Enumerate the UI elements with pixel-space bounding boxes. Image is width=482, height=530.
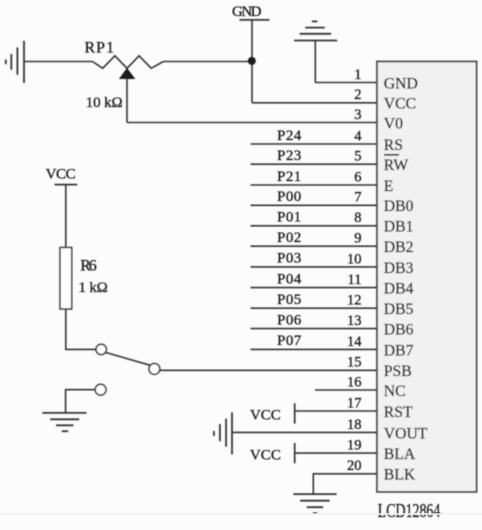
wire: RP1 right terminal to GND node [163,61,252,63]
svg-text:P01: P01 [277,210,301,226]
svg-text:18: 18 [347,417,362,433]
svg-text:DB2: DB2 [384,239,414,256]
svg-text:10 kΩ: 10 kΩ [86,95,123,111]
wire: pin 20 BLK to ground [313,474,377,494]
scan streak artifact [0,513,482,515]
svg-text:6: 6 [354,169,361,185]
svg-text:P04: P04 [277,271,302,287]
svg-text:P21: P21 [277,169,301,185]
wire: RP1 wiper down [126,79,128,123]
wire: ground stem down [314,41,316,83]
switch contact (lower) [95,384,106,395]
svg-text:P02: P02 [277,230,301,246]
svg-text:VCC: VCC [46,167,76,183]
svg-text:DB3: DB3 [384,260,414,277]
svg-text:BLK: BLK [384,467,416,484]
svg-text:13: 13 [347,313,362,329]
svg-text:12: 12 [347,293,362,309]
svg-text:LCD12864: LCD12864 [378,501,441,522]
svg-text:PSB: PSB [384,363,412,380]
svg-text:P03: P03 [277,251,301,267]
wire: ground to RP1 left terminal [24,61,93,63]
IC U1 LCD12864 module body [377,62,477,492]
IC pin name labels [384,75,428,483]
svg-text:P23: P23 [277,148,301,164]
wire: R6 to switch pole [66,309,96,349]
ground symbol (left of pin 18 VOUT) [214,412,232,454]
svg-text:4: 4 [354,128,362,144]
wire: lower contact to ground [66,390,96,412]
svg-text:GND: GND [232,4,262,20]
svg-text:16: 16 [347,374,362,390]
wire: VCC to R6 [65,185,67,248]
svg-text:P06: P06 [277,312,302,328]
ground symbol (top-left, rotated left) [6,41,24,83]
svg-text:V0: V0 [384,115,403,132]
svg-text:8: 8 [354,210,361,226]
wires: port bus P24..P07 to pins 4-14 [251,144,378,349]
ground symbol (top-right, inverted, for pin 1) [294,21,337,40]
wire: GND rail vertical [251,20,253,103]
svg-text:DB6: DB6 [384,322,414,339]
wire: ground to pin 18 VOUT [232,431,377,433]
svg-text:20: 20 [347,458,362,474]
svg-text:15: 15 [347,355,362,371]
svg-text:GND: GND [384,75,418,92]
svg-text:9: 9 [354,231,361,247]
svg-text:19: 19 [347,438,362,454]
svg-text:10: 10 [347,251,362,267]
svg-text:7: 7 [354,190,361,206]
svg-text:RP1: RP1 [85,40,115,57]
net label VCC (left) [46,167,78,185]
svg-text:P00: P00 [277,189,301,205]
svg-text:RW: RW [384,157,409,174]
svg-text:1: 1 [354,67,361,83]
svg-text:11: 11 [348,272,362,288]
svg-text:DB7: DB7 [384,342,414,359]
switch contact (upper) [96,344,106,354]
svg-text:5: 5 [354,149,361,165]
svg-text:R6: R6 [80,258,97,275]
switch common contact [149,364,160,375]
VCC tap for pin 19 BLA [250,443,377,464]
wire: to pin 1 GND [315,82,377,84]
net labels P24..P07 [277,128,302,349]
svg-text:P07: P07 [277,333,302,349]
overline on RW (pin 5) [384,154,399,156]
svg-text:VCC: VCC [250,408,281,424]
svg-text:3: 3 [354,107,361,123]
svg-text:BLA: BLA [384,446,416,463]
svg-text:1 kΩ: 1 kΩ [79,280,108,296]
svg-text:RST: RST [384,404,413,421]
ground symbol (below switch) [42,413,86,431]
svg-text:14: 14 [347,334,362,350]
svg-text:P24: P24 [277,128,302,144]
RP1 wiper arrow [119,68,135,79]
svg-text:VCC: VCC [250,448,281,464]
svg-text:DB0: DB0 [384,198,414,215]
switch lever [106,352,151,365]
svg-text:2: 2 [354,87,361,103]
svg-text:DB5: DB5 [384,301,414,318]
potentiometer RP1 body (zigzag) [93,56,164,69]
svg-text:P05: P05 [277,292,301,308]
resistor R6 [60,248,72,310]
ground symbol (bottom, for pin 20) [293,494,336,513]
svg-text:RS: RS [384,137,403,154]
svg-text:VOUT: VOUT [384,425,428,442]
junction dot [248,57,256,65]
svg-text:DB1: DB1 [384,219,414,236]
svg-text:NC: NC [384,383,406,400]
svg-text:E: E [384,178,394,195]
wire: switch common to pin 15 PSB [160,369,377,371]
wire: to pin 2 VCC [252,102,377,104]
svg-text:17: 17 [347,395,362,411]
net label GND (top) [232,4,270,20]
svg-text:VCC: VCC [384,96,416,113]
wire: pin 16 NC stub [315,389,377,391]
VCC tap for pin 17 RST [250,403,377,423]
wire: wiper to pin 3 V0 [127,122,377,124]
pin numbers 1-20 [347,67,362,474]
svg-text:DB4: DB4 [384,281,414,298]
